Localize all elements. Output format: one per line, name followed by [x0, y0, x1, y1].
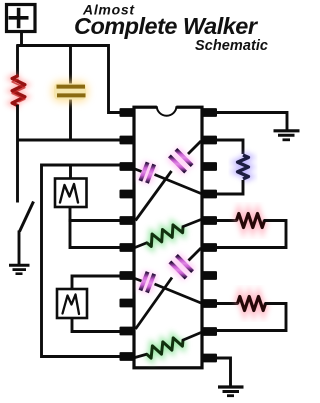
op-amp/driver IC U1 body	[134, 107, 202, 368]
IC pin R4	[201, 190, 217, 199]
wire left rail upper	[16, 45, 19, 77]
wire pin R10 to ground	[215, 358, 231, 386]
wire motor M2 bottom to pin L9	[72, 318, 122, 332]
IC pin R6	[201, 243, 217, 252]
battery B1	[7, 5, 36, 32]
capacitor C4 (pink, inside IC lower-left), wire L7->R8	[135, 272, 201, 303]
ground GND2 (top right)	[274, 131, 300, 140]
svg-text:Complete Walker: Complete Walker	[74, 13, 259, 39]
svg-text:Schematic: Schematic	[195, 38, 268, 54]
IC pin L9	[120, 327, 136, 336]
capacitor C3 (pink, inside IC upper-right), wire R2->L5	[136, 141, 202, 221]
motor M2	[57, 276, 122, 318]
IC pin R3	[201, 162, 217, 171]
ground GND1 (left)	[9, 265, 30, 274]
IC pin L2	[120, 136, 136, 145]
IC pin L5	[120, 216, 136, 225]
IC pin R8	[201, 299, 217, 308]
wire battery stem	[20, 32, 23, 48]
ground GND3 (bottom right)	[218, 387, 244, 396]
IC pin R5	[201, 216, 217, 225]
wire R8 + resistor R6 (dark red/pink glow)	[215, 302, 239, 305]
capacitor C2 (pink, inside IC upper-left), wire L3->R4	[135, 162, 201, 193]
wire left rail lower	[16, 105, 19, 203]
IC pin L4	[120, 190, 136, 199]
resistor R2 (green, inside IC middle), wire L6->R5	[135, 220, 201, 248]
capacitor C1 (orange)	[52, 81, 88, 102]
IC pin R2	[201, 136, 217, 145]
wire R2 loop + resistor R4 (blue)	[215, 140, 243, 154]
IC pin R9	[201, 327, 217, 336]
wire to pin L2	[17, 139, 124, 142]
wire cap drop	[69, 46, 72, 142]
wire pin R1 to ground	[215, 113, 287, 130]
wire motor M1 bottom to pins L5,L6	[70, 207, 122, 221]
wire pin L3 to left outer rail	[42, 165, 124, 357]
IC pin L7	[120, 271, 136, 280]
IC pin L8	[120, 299, 136, 308]
IC pin L6	[120, 243, 136, 252]
motor M1	[55, 164, 87, 207]
IC pin R10	[201, 354, 217, 363]
resistor R1 (red, left)	[12, 76, 25, 107]
switch S1	[20, 202, 34, 232]
capacitor C5 (pink, inside IC lower-right), wire R6->L9	[136, 248, 202, 329]
IC pin R1	[201, 108, 217, 117]
IC pin L10	[120, 352, 136, 361]
IC pin L3	[120, 162, 136, 171]
IC pin L1	[120, 108, 136, 117]
wire switch to ground	[18, 231, 21, 265]
resistor R3 (green, inside IC bottom), wire L10->R9	[135, 333, 201, 359]
wire top rail	[17, 46, 122, 113]
wire R5 + resistor R5 (dark red/pink glow)	[215, 219, 238, 222]
IC notch	[157, 104, 177, 115]
IC pin R7	[201, 271, 217, 280]
